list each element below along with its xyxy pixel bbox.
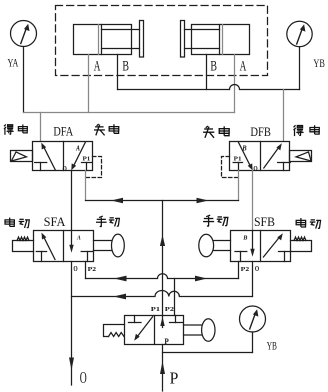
svg-text:O: O bbox=[255, 264, 259, 273]
svg-text:DFB: DFB bbox=[250, 125, 271, 139]
svg-text:O: O bbox=[73, 264, 77, 273]
svg-text:SFB: SFB bbox=[254, 215, 275, 229]
svg-text:B: B bbox=[122, 59, 129, 75]
svg-text:O: O bbox=[80, 368, 87, 387]
svg-text:A: A bbox=[240, 59, 247, 75]
svg-text:A: A bbox=[94, 59, 101, 75]
svg-text:P1: P1 bbox=[234, 156, 242, 163]
svg-text:YB: YB bbox=[267, 341, 277, 353]
svg-text:O: O bbox=[253, 164, 257, 173]
svg-text:P2: P2 bbox=[88, 266, 97, 273]
svg-text:A: A bbox=[75, 144, 80, 152]
svg-text:P2: P2 bbox=[241, 266, 250, 273]
svg-text:A: A bbox=[76, 234, 81, 241]
svg-text:B: B bbox=[241, 144, 247, 152]
svg-text:P1: P1 bbox=[83, 156, 91, 163]
svg-text:O: O bbox=[63, 164, 67, 173]
svg-text:YB: YB bbox=[313, 58, 325, 70]
svg-text:P: P bbox=[170, 369, 179, 388]
svg-text:P2: P2 bbox=[165, 306, 175, 313]
svg-text:YA: YA bbox=[8, 58, 19, 70]
svg-text:DFA: DFA bbox=[53, 125, 73, 139]
svg-text:P1: P1 bbox=[151, 306, 160, 313]
svg-text:B: B bbox=[210, 59, 217, 75]
svg-text:SFA: SFA bbox=[44, 215, 66, 229]
svg-text:P: P bbox=[164, 337, 168, 346]
svg-text:B: B bbox=[242, 234, 248, 241]
